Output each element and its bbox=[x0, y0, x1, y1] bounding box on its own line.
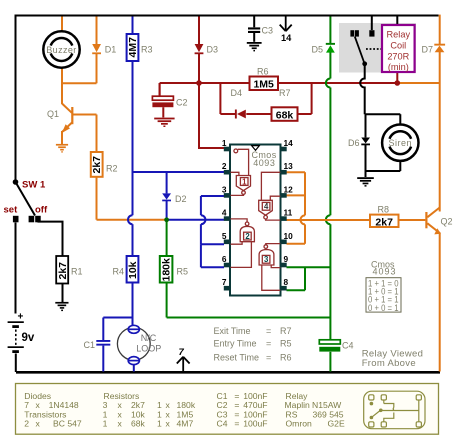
svg-text:=: = bbox=[266, 352, 271, 362]
svg-text:N/C: N/C bbox=[141, 333, 157, 343]
svg-text:off: off bbox=[35, 205, 48, 216]
svg-text:Exit Time: Exit Time bbox=[214, 326, 251, 336]
svg-text:Reset Time: Reset Time bbox=[214, 352, 260, 362]
svg-text:x: x bbox=[118, 419, 123, 429]
svg-text:x: x bbox=[166, 419, 171, 429]
svg-text:R6: R6 bbox=[257, 67, 269, 77]
svg-text:R7: R7 bbox=[279, 88, 291, 98]
svg-text:1: 1 bbox=[157, 419, 162, 429]
svg-text:9: 9 bbox=[284, 254, 289, 264]
svg-text:4093: 4093 bbox=[373, 267, 397, 277]
svg-text:LOOP: LOOP bbox=[136, 343, 161, 353]
svg-text:Entry Time: Entry Time bbox=[214, 339, 257, 349]
svg-text:C3: C3 bbox=[262, 26, 274, 36]
svg-text:set: set bbox=[4, 205, 19, 216]
svg-text:=: = bbox=[266, 326, 271, 336]
svg-text:D3: D3 bbox=[207, 45, 219, 55]
svg-text:Relay: Relay bbox=[387, 30, 411, 40]
svg-text:7: 7 bbox=[222, 277, 227, 287]
svg-text:R2: R2 bbox=[106, 164, 118, 174]
svg-text:2k7: 2k7 bbox=[57, 262, 69, 280]
svg-text:Q1: Q1 bbox=[47, 109, 59, 119]
svg-text:Omron: Omron bbox=[286, 419, 312, 429]
svg-text:C1: C1 bbox=[84, 340, 96, 350]
svg-text:1: 1 bbox=[103, 419, 108, 429]
svg-text:D2: D2 bbox=[175, 194, 187, 204]
svg-text:Buzzer: Buzzer bbox=[46, 45, 76, 55]
svg-text:8: 8 bbox=[284, 277, 289, 287]
svg-text:Coil: Coil bbox=[390, 41, 406, 51]
svg-text:4M7: 4M7 bbox=[177, 419, 194, 429]
svg-text:R6: R6 bbox=[280, 352, 292, 362]
svg-text:R7: R7 bbox=[280, 326, 292, 336]
svg-text:R5: R5 bbox=[280, 339, 292, 349]
svg-text:D7: D7 bbox=[422, 45, 434, 55]
svg-text:+: + bbox=[18, 312, 24, 323]
svg-text:6: 6 bbox=[222, 254, 227, 264]
svg-text:2: 2 bbox=[24, 419, 29, 429]
svg-text:1M5: 1M5 bbox=[253, 79, 274, 91]
svg-text:3: 3 bbox=[264, 255, 269, 264]
svg-text:5: 5 bbox=[222, 231, 227, 241]
svg-text:180k: 180k bbox=[161, 258, 173, 282]
svg-text:Q2: Q2 bbox=[441, 217, 453, 227]
svg-text:Siren: Siren bbox=[389, 138, 413, 148]
svg-text:4093: 4093 bbox=[253, 158, 275, 168]
svg-text:R5: R5 bbox=[177, 267, 189, 277]
svg-text:D5: D5 bbox=[312, 45, 324, 55]
svg-text:D6: D6 bbox=[348, 138, 360, 148]
svg-text:=: = bbox=[234, 419, 239, 429]
svg-text:R8: R8 bbox=[378, 205, 390, 215]
svg-text:68k: 68k bbox=[131, 419, 146, 429]
svg-text:From Above: From Above bbox=[362, 358, 416, 369]
svg-text:R4: R4 bbox=[113, 267, 125, 277]
svg-text:2: 2 bbox=[222, 161, 227, 171]
svg-text:4: 4 bbox=[222, 208, 227, 218]
svg-text:BC 547: BC 547 bbox=[53, 419, 82, 429]
svg-text:11: 11 bbox=[284, 208, 293, 218]
svg-text:1: 1 bbox=[242, 177, 247, 186]
svg-text:1: 1 bbox=[222, 138, 227, 148]
svg-text:10: 10 bbox=[284, 231, 294, 241]
svg-text:3: 3 bbox=[222, 184, 227, 194]
svg-text:C4: C4 bbox=[217, 419, 228, 429]
svg-text:SW 1: SW 1 bbox=[22, 180, 46, 191]
svg-text:C2: C2 bbox=[176, 98, 188, 108]
svg-text:(min): (min) bbox=[388, 62, 409, 72]
svg-text:4: 4 bbox=[264, 202, 269, 211]
svg-text:G2E: G2E bbox=[328, 419, 345, 429]
svg-text:2: 2 bbox=[245, 232, 250, 241]
svg-text:D1: D1 bbox=[105, 45, 117, 55]
svg-text:x: x bbox=[36, 419, 41, 429]
svg-text:100uF: 100uF bbox=[243, 419, 267, 429]
svg-text:4M7: 4M7 bbox=[127, 37, 139, 58]
svg-text:C4: C4 bbox=[342, 341, 354, 351]
svg-text:7: 7 bbox=[179, 347, 185, 358]
svg-text:10k: 10k bbox=[127, 261, 139, 279]
svg-text:270R: 270R bbox=[387, 52, 409, 62]
svg-text:R3: R3 bbox=[141, 45, 153, 55]
svg-text:9v: 9v bbox=[22, 332, 35, 344]
svg-text:68k: 68k bbox=[276, 110, 294, 122]
svg-text:D4: D4 bbox=[231, 88, 243, 98]
svg-text:12: 12 bbox=[284, 184, 294, 194]
svg-text:2k7: 2k7 bbox=[375, 216, 393, 228]
svg-text:13: 13 bbox=[284, 161, 294, 171]
svg-text:2k7: 2k7 bbox=[91, 156, 103, 174]
svg-text:14: 14 bbox=[284, 138, 294, 148]
svg-text:14: 14 bbox=[281, 33, 292, 43]
svg-text:=: = bbox=[266, 339, 271, 349]
svg-text:R1: R1 bbox=[71, 267, 83, 277]
svg-text:0 + 0 = 1: 0 + 0 = 1 bbox=[368, 303, 399, 313]
